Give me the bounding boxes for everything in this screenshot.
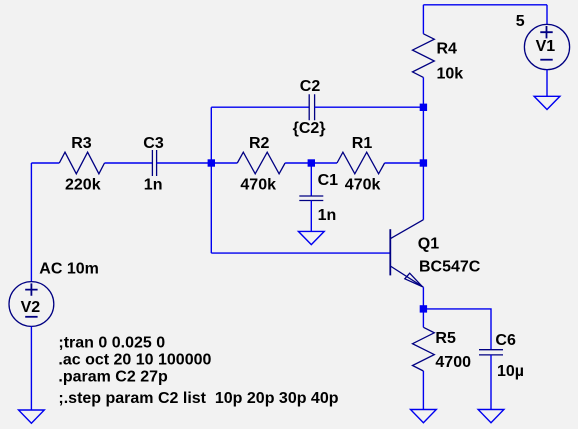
svg-text:4700: 4700 (435, 354, 471, 371)
svg-text:470k: 470k (240, 176, 276, 193)
wire C2 right segment (315, 106, 424, 108)
R5 value label (435, 354, 471, 371)
svg-text:BC547C: BC547C (419, 259, 481, 276)
svg-text:.param C2 27p: .param C2 27p (58, 368, 168, 385)
svg-text:V1: V1 (536, 38, 556, 55)
svg-text:470k: 470k (345, 176, 381, 193)
C6 value label (497, 363, 524, 380)
C1 value label (318, 207, 337, 224)
junction node feedback (208, 159, 215, 166)
wire R2 to R1 (285, 162, 337, 164)
R1 value label (345, 176, 381, 193)
svg-text:R3: R3 (71, 135, 92, 152)
R2 name label (249, 135, 270, 152)
svg-text:Q1: Q1 (418, 235, 439, 252)
wire R5 bottom lead (422, 371, 424, 410)
svg-text:1n: 1n (144, 176, 163, 193)
spice directive tran (58, 335, 165, 352)
R3 name label (71, 135, 92, 152)
junction node C1 top (308, 159, 315, 166)
wire top rail from R4 to V1 (423, 4, 547, 6)
C3 name label (143, 135, 164, 152)
svg-text:.ac oct 20 10 100000: .ac oct 20 10 100000 (58, 352, 211, 369)
svg-text:220k: 220k (65, 176, 101, 193)
svg-text:5: 5 (516, 13, 525, 30)
C3 value label (144, 176, 163, 193)
wire R1 to collector rail (385, 162, 424, 164)
wire V2 branch top (30, 163, 32, 282)
svg-text:1n: 1n (318, 207, 337, 224)
wire V2 bottom lead (30, 326, 32, 410)
wire V1 top lead (546, 5, 548, 25)
wire C1 top lead (310, 163, 312, 196)
wire C6 bottom lead (490, 355, 492, 410)
svg-text:R4: R4 (437, 41, 458, 58)
svg-text:C1: C1 (318, 172, 339, 189)
R5 name label (435, 330, 456, 347)
svg-text:C3: C3 (143, 135, 164, 152)
C2 name label (300, 78, 321, 95)
svg-text:R2: R2 (249, 135, 270, 152)
ground below C6 (478, 410, 504, 423)
C6 name label (495, 332, 516, 349)
R1 name label (352, 135, 373, 152)
V1 value label 5 (516, 13, 525, 30)
wire collector rail vertical (422, 107, 424, 219)
wire R4 bottom lead (422, 77, 424, 107)
V2 value label AC 10m (39, 261, 99, 278)
svg-text:;tran 0 0.025 0: ;tran 0 0.025 0 (58, 335, 165, 352)
capacitor C6 (479, 350, 503, 355)
R2 value label (240, 176, 276, 193)
wire emitter to C6 (423, 309, 491, 350)
spice directive param (58, 368, 168, 385)
wire C3 to R2 (157, 162, 238, 164)
junction node emitter (420, 305, 427, 312)
voltage source V2 (9, 282, 54, 327)
capacitor C2 (309, 94, 314, 120)
junction R4/C2 node (420, 104, 427, 111)
capacitor C1 (299, 196, 323, 201)
Q1 name label (418, 235, 439, 252)
C2 value label (293, 120, 326, 137)
R4 name label (437, 41, 458, 58)
voltage source V1 (524, 24, 569, 69)
svg-text:10µ: 10µ (497, 363, 524, 380)
wire R4 top lead (422, 5, 424, 34)
transistor Q1 (390, 220, 423, 288)
wire emitter lead (422, 287, 424, 309)
resistor R4 (413, 34, 435, 78)
svg-text:V2: V2 (21, 299, 41, 316)
wire R3 to C3 (105, 162, 153, 164)
wire R5 top lead (422, 309, 424, 327)
ground below V1 (534, 96, 560, 109)
wire left feedback branch vertical (210, 107, 212, 253)
resistor R5 (413, 327, 435, 371)
capacitor C3 (152, 150, 156, 176)
resistor R2 (237, 152, 285, 174)
wire C1 bottom lead (310, 201, 312, 232)
R4 value label (437, 65, 464, 82)
R3 value label (65, 176, 101, 193)
Q1 value label BC547C (419, 259, 481, 276)
svg-text:10k: 10k (437, 65, 464, 82)
junction node collector rail (420, 159, 427, 166)
spice directive step (58, 390, 338, 407)
ground below C1 (298, 231, 324, 244)
ground below V2 (19, 410, 45, 423)
wire base segment to Q1 (211, 252, 390, 254)
resistor R1 (337, 152, 385, 174)
wire main left segment (31, 162, 59, 164)
svg-text:AC 10m: AC 10m (39, 261, 99, 278)
C1 name label (318, 172, 339, 189)
wire V1 bottom lead (546, 70, 548, 97)
svg-text:C6: C6 (495, 332, 516, 349)
ground below R5 (411, 410, 437, 423)
wire C2 left segment (211, 106, 309, 108)
svg-text:R5: R5 (435, 330, 456, 347)
spice directive ac (58, 352, 211, 369)
svg-text:C2: C2 (300, 78, 321, 95)
svg-text:;.step param C2 list 10p 20p: ;.step param C2 list 10p 20p 30p 40p (58, 390, 338, 407)
svg-text:R1: R1 (352, 135, 373, 152)
resistor R3 (59, 152, 104, 174)
svg-text:{C2}: {C2} (293, 120, 326, 137)
